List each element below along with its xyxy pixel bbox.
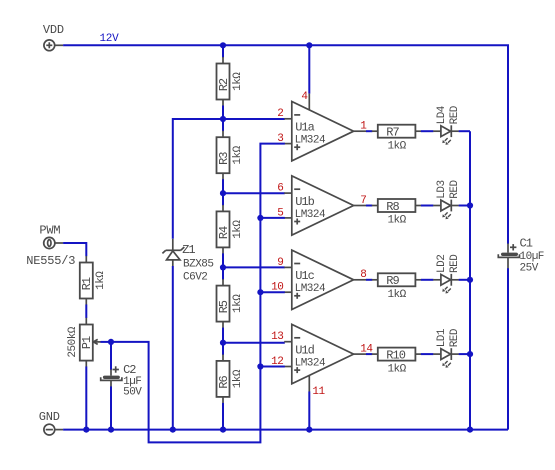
wire divider tap to op-amp inverting input (223, 118, 285, 120)
wire ground rail (63, 429, 508, 431)
resistor R7 body (378, 125, 416, 138)
svg-text:6: 6 (277, 183, 283, 195)
wire R7 to LED LD4 (421, 130, 434, 132)
svg-text:RED: RED (449, 254, 461, 273)
wire VDD rail from terminal to top-right corner (63, 45, 508, 243)
wire LED LD3 cathode to LED rail (459, 205, 470, 207)
pin lead 11 of U1d (308, 375, 310, 392)
junction wiper / C2 (108, 339, 114, 345)
svg-text:10µF: 10µF (520, 251, 544, 263)
wire from R3 bottom to node (222, 179, 224, 193)
resistor R3 body (217, 137, 230, 173)
svg-text:R3: R3 (217, 152, 231, 165)
svg-text:R7: R7 (386, 126, 399, 140)
junction LED rail / ground rail (467, 427, 473, 433)
wire from R2 bottom to node (222, 106, 224, 120)
junction bus / + input (257, 215, 263, 221)
wire divider tap to op-amp inverting input (223, 266, 285, 268)
svg-text:1kΩ: 1kΩ (232, 72, 244, 91)
wire from node to R5 top (222, 267, 224, 279)
wire R10 to LED LD1 (421, 353, 434, 355)
pin lead R7 left (372, 130, 378, 132)
resistor R1 body (80, 263, 93, 299)
wire C1 to bottom-right corner (507, 268, 509, 429)
svg-text:C2: C2 (123, 363, 136, 377)
input terminal PWM (44, 237, 63, 248)
svg-text:8: 8 (360, 269, 366, 281)
svg-text:1kΩ: 1kΩ (232, 369, 244, 388)
svg-text:1kΩ: 1kΩ (387, 363, 406, 375)
junction bus / + input (257, 363, 263, 369)
wire bus to non-inverting input (260, 217, 284, 219)
resistor R10 body (378, 348, 416, 361)
svg-text:1kΩ: 1kΩ (387, 215, 406, 227)
svg-text:R5: R5 (217, 300, 231, 313)
LED LD4 (433, 125, 459, 145)
svg-text:GND: GND (39, 410, 60, 424)
pin lead R4 top (222, 205, 224, 212)
junction bus / + input (257, 289, 263, 295)
pin lead R6 top (222, 354, 224, 361)
junction pin 11 / ground rail (306, 427, 312, 433)
wire U1d pin 11 to ground rail (308, 392, 310, 430)
op-amp U1d (284, 324, 366, 383)
pin lead R4 bottom (222, 247, 224, 254)
svg-text:LD2: LD2 (436, 255, 448, 273)
svg-text:R10: R10 (386, 348, 405, 362)
potentiometer P1 body (80, 325, 101, 361)
svg-text:12V: 12V (100, 33, 120, 45)
resistor R4 body (217, 211, 230, 247)
pin lead R3 bottom (222, 173, 224, 180)
wire V+ rail to U1a pin 4 (308, 45, 310, 93)
svg-text:11: 11 (312, 386, 325, 398)
svg-text:R6: R6 (217, 375, 231, 388)
svg-text:1kΩ: 1kΩ (232, 145, 244, 164)
svg-text:VDD: VDD (43, 23, 64, 37)
pin lead P1 bottom (85, 361, 87, 367)
svg-text:PWM: PWM (39, 224, 60, 238)
junction P1 / ground rail (83, 427, 89, 433)
svg-text:9: 9 (277, 257, 283, 269)
pin lead R9 left (372, 279, 378, 281)
wire from node to R3 top (222, 119, 224, 131)
svg-text:1kΩ: 1kΩ (95, 271, 107, 290)
wire bus to non-inverting input (260, 366, 284, 368)
op-amp U1c (284, 250, 366, 309)
svg-text:RED: RED (449, 328, 461, 347)
pin lead R3 top (222, 131, 224, 138)
wire R9 to LED LD2 (421, 279, 434, 281)
wire divider tap to op-amp inverting input (223, 192, 285, 194)
pin lead R2 top (222, 57, 224, 64)
pin lead R9 right (415, 279, 421, 281)
junction LED rail (467, 202, 473, 208)
wire zener anode to ground rail (172, 266, 174, 430)
svg-text:13: 13 (271, 331, 283, 343)
svg-text:1kΩ: 1kΩ (232, 220, 244, 239)
wire from node to R6 top (222, 343, 224, 355)
wire LED LD2 cathode to LED rail (459, 279, 470, 281)
svg-text:LD4: LD4 (436, 105, 448, 124)
pin lead R1 bottom (85, 299, 87, 306)
svg-text:C6V2: C6V2 (183, 271, 207, 283)
wire from R4 bottom to node (222, 253, 224, 267)
wire P1 bottom to ground rail (85, 367, 87, 430)
pin lead R5 bottom (222, 322, 224, 329)
capacitor C2 (polarized) (101, 366, 122, 387)
svg-text:LM324: LM324 (295, 135, 326, 147)
junction divider bottom / ground rail (220, 427, 226, 433)
pin lead R7 right (415, 130, 421, 132)
wire op-amp output to R7 (366, 130, 372, 132)
svg-text:250kΩ: 250kΩ (67, 326, 79, 357)
LED LD1 (433, 348, 459, 368)
wire op-amp output to R10 (366, 353, 372, 355)
capacitor C1 (polarized) (498, 244, 519, 269)
wire bus to non-inverting input (260, 291, 284, 293)
svg-text:1kΩ: 1kΩ (387, 140, 406, 152)
junction divider tap node (220, 264, 226, 270)
pin lead R10 right (415, 353, 421, 355)
LED LD2 (433, 274, 459, 294)
svg-text:R9: R9 (386, 274, 399, 288)
wire wiper node to C2 (110, 342, 112, 370)
wire divider top node to zener Z1 (173, 119, 223, 239)
junction divider tap node (220, 190, 226, 196)
wire from node to R4 top (222, 193, 224, 205)
resistor R5 body (217, 286, 230, 322)
junction divider tap node (220, 116, 226, 122)
resistor R2 body (217, 64, 230, 100)
junction LED rail (467, 277, 473, 283)
junction LED rail (467, 351, 473, 357)
svg-text:LM324: LM324 (295, 357, 326, 369)
wire LED LD4 cathode to LED rail (459, 130, 470, 132)
svg-text:R2: R2 (217, 78, 231, 91)
svg-text:RED: RED (449, 105, 461, 124)
svg-text:U1a: U1a (295, 121, 314, 135)
op-amp U1a (284, 102, 366, 161)
svg-text:7: 7 (360, 195, 366, 207)
svg-text:R4: R4 (217, 226, 231, 239)
resistor R8 body (378, 199, 416, 212)
svg-text:LD1: LD1 (436, 328, 448, 347)
svg-text:P1: P1 (80, 336, 94, 349)
pin lead R2 bottom (222, 100, 224, 107)
wire R1 to P1 (85, 305, 87, 319)
svg-text:C1: C1 (520, 237, 533, 251)
wire divider tap to op-amp inverting input (223, 342, 285, 344)
junction C2 / ground rail (108, 427, 114, 433)
resistor R9 body (378, 273, 416, 286)
wire PWM terminal to R1 (63, 243, 86, 256)
svg-text:1kΩ: 1kΩ (387, 289, 406, 301)
svg-text:1kΩ: 1kΩ (232, 294, 244, 313)
svg-text:LD3: LD3 (436, 180, 448, 198)
svg-text:R1: R1 (80, 277, 94, 290)
svg-text:50V: 50V (123, 387, 142, 399)
ground terminal GND (44, 424, 63, 435)
svg-text:U1b: U1b (295, 195, 314, 209)
wire LED cathode rail (469, 131, 471, 429)
op-amp U1b (284, 176, 366, 235)
wire C2 to ground rail (110, 386, 112, 429)
wire from node to R2 top (222, 45, 224, 57)
power terminal VDD (44, 40, 63, 51)
junction zener / ground rail (170, 427, 176, 433)
wire non-inverting bus: P1 wiper to all + inputs (111, 144, 285, 443)
svg-text:R8: R8 (386, 200, 399, 214)
svg-text:U1c: U1c (295, 269, 314, 283)
pin lead R5 top (222, 279, 224, 286)
svg-text:2: 2 (277, 108, 283, 120)
svg-text:Z1: Z1 (182, 243, 195, 257)
pin lead R1 top (85, 256, 87, 263)
wire op-amp output to R9 (366, 279, 372, 281)
svg-text:4: 4 (301, 91, 308, 103)
junction top rail / op-amp V+ pin 4 column (306, 42, 312, 48)
LED LD3 (433, 200, 459, 220)
pin lead 4 of U1a (308, 94, 310, 111)
wire op-amp output to R8 (366, 205, 372, 207)
svg-text:BZX85: BZX85 (183, 258, 214, 270)
pin lead R6 bottom (222, 397, 224, 404)
pin lead R8 left (372, 205, 378, 207)
zener diode Z1 (162, 239, 184, 266)
wire from R6 bottom to node (222, 403, 224, 430)
junction divider tap node (220, 340, 226, 346)
junction top rail / R2 (220, 42, 226, 48)
svg-text:RED: RED (449, 179, 461, 198)
svg-text:U1d: U1d (295, 343, 314, 357)
svg-text:LM324: LM324 (295, 209, 326, 221)
pin lead R10 left (372, 353, 378, 355)
wire R8 to LED LD3 (421, 205, 434, 207)
resistor R6 body (217, 361, 230, 397)
pin lead R8 right (415, 205, 421, 207)
pin lead P1 top (85, 318, 87, 325)
wire P1 wiper stub (101, 341, 112, 343)
svg-text:NE555/3: NE555/3 (26, 254, 75, 268)
svg-text:LM324: LM324 (295, 283, 326, 295)
svg-text:25V: 25V (520, 263, 539, 275)
wire from R5 bottom to node (222, 328, 224, 343)
wire LED LD1 cathode to LED rail (459, 353, 470, 355)
